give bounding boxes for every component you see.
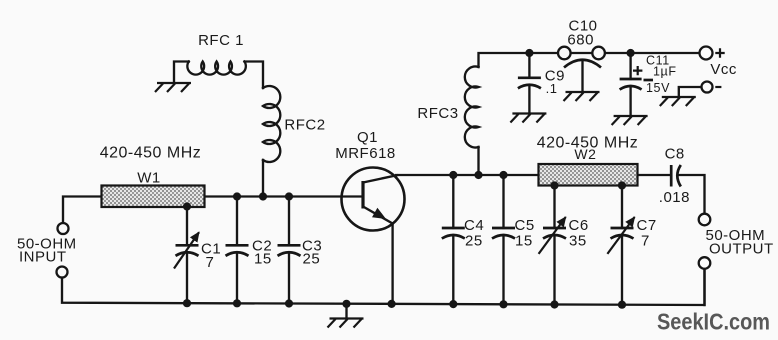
svg-text:INPUT: INPUT: [19, 249, 67, 266]
svg-text:15: 15: [515, 233, 533, 250]
svg-text:RFC 1: RFC 1: [198, 32, 244, 49]
svg-text:RFC2: RFC2: [284, 117, 325, 134]
svg-text:15: 15: [254, 251, 272, 268]
svg-text:C7: C7: [637, 217, 657, 234]
svg-text:25: 25: [303, 251, 321, 268]
svg-text:7: 7: [641, 233, 650, 250]
svg-text:C6: C6: [569, 217, 589, 234]
svg-text:35: 35: [569, 233, 587, 250]
svg-text:15V: 15V: [646, 81, 670, 95]
svg-text:420-450 MHz: 420-450 MHz: [100, 145, 202, 162]
svg-text:W1: W1: [137, 170, 161, 187]
svg-text:25: 25: [465, 233, 483, 250]
svg-text:Q1: Q1: [357, 129, 378, 146]
svg-text:C8: C8: [665, 146, 685, 163]
svg-text:Vcc: Vcc: [710, 61, 737, 78]
svg-text:C5: C5: [515, 217, 535, 234]
svg-text:7: 7: [206, 254, 215, 271]
svg-text:680: 680: [567, 32, 594, 49]
svg-text:RFC3: RFC3: [417, 105, 458, 122]
svg-text:OUTPUT: OUTPUT: [709, 241, 774, 258]
svg-text:1µF: 1µF: [653, 65, 677, 79]
svg-text:.1: .1: [546, 81, 558, 96]
svg-text:420-450 MHz: 420-450 MHz: [537, 135, 639, 152]
svg-text:SeekIC.com: SeekIC.com: [657, 309, 770, 335]
svg-text:C4: C4: [464, 217, 484, 234]
svg-text:MRF618: MRF618: [335, 145, 396, 162]
svg-text:.018: .018: [659, 189, 690, 206]
